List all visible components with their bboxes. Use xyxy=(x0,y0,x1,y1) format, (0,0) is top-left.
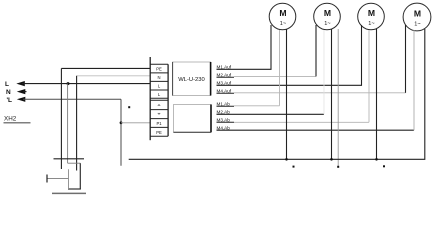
control unit U1 WL-U-230 xyxy=(173,62,211,96)
node junction PE riser xyxy=(120,121,123,124)
svg-text:M4.Auf: M4.Auf xyxy=(217,88,232,93)
wire riser V3 xyxy=(76,76,78,171)
wire N grey to terminal 2 xyxy=(77,75,151,77)
svg-text:L: L xyxy=(158,84,161,89)
wire riser V1 xyxy=(60,68,62,169)
arrow N xyxy=(17,89,26,94)
svg-text:P1: P1 xyxy=(156,121,162,126)
svg-text:M2.Ab: M2.Ab xyxy=(217,109,231,114)
switch S1 box bottom edge xyxy=(68,188,81,190)
motor M1 xyxy=(269,3,296,30)
wire M2 aux grey drop xyxy=(337,29,339,167)
svg-text:XH2: XH2 xyxy=(4,115,17,122)
switch S1 box right edge xyxy=(79,163,81,189)
node dot d xyxy=(128,106,130,108)
terminal divider t3 xyxy=(150,89,168,91)
node dot a xyxy=(293,166,295,168)
terminal divider t6 xyxy=(150,109,168,111)
wire M1.Ab label stub xyxy=(217,105,235,107)
wire M3 right drop xyxy=(376,29,378,161)
svg-text:M: M xyxy=(368,8,375,18)
svg-text:M3.Ab: M3.Ab xyxy=(217,117,231,122)
svg-text:1~: 1~ xyxy=(280,21,287,27)
wire M2.Auf grey run xyxy=(234,75,316,77)
arrow L xyxy=(16,81,25,86)
wall line A xyxy=(54,158,85,160)
wire M4.Auf label stub xyxy=(217,92,235,94)
svg-text:L: L xyxy=(158,92,161,97)
wire M3.Ab riser grey xyxy=(368,30,370,122)
svg-text:M: M xyxy=(279,8,286,18)
wire M3.Ab label stub xyxy=(217,121,235,123)
switch actuator lever grey xyxy=(47,178,69,180)
svg-text:1~: 1~ xyxy=(414,22,421,28)
svg-text:WL-U-230: WL-U-230 xyxy=(178,77,204,83)
wire M2.Ab riser faint xyxy=(323,30,325,114)
wire M2.Auf label stub xyxy=(217,76,235,78)
terminal strip X1 left rail xyxy=(149,57,151,140)
terminal divider t4 xyxy=(150,97,168,99)
switch S1 box left edge grey xyxy=(68,169,70,189)
wire M4.Ab xyxy=(217,129,414,131)
node junction M1 rail xyxy=(285,158,288,161)
wire M1.Ab riser grey xyxy=(279,30,281,106)
terminal divider t2 xyxy=(150,80,168,82)
arrow PE xyxy=(17,97,26,102)
svg-text:N: N xyxy=(157,75,160,80)
wire M4 right drop and common rail xyxy=(129,29,425,159)
svg-text:1~: 1~ xyxy=(368,21,375,27)
svg-text:M4.Ab: M4.Ab xyxy=(217,125,231,130)
wire M3.Ab grey run xyxy=(234,121,369,123)
wire M3.Auf xyxy=(217,25,362,85)
module U2 lower box xyxy=(174,105,212,133)
svg-text:M3.Auf: M3.Auf xyxy=(217,80,232,85)
wire M2.Auf riser xyxy=(315,25,317,76)
svg-text:PE: PE xyxy=(156,130,162,135)
terminal divider t0 xyxy=(150,63,168,65)
node junction M3 rail xyxy=(375,158,378,161)
wire M1.Ab grey run xyxy=(234,105,280,107)
node junction on L wire xyxy=(67,82,70,85)
wall baseline grey xyxy=(52,192,86,194)
wire M4.Auf grey run xyxy=(234,92,406,94)
switch actuator tick xyxy=(46,175,48,183)
wire M4.Ab riser grey xyxy=(413,30,415,130)
wire M2.Ab xyxy=(217,113,324,115)
wire PE horizontal to riser xyxy=(23,98,121,100)
node dot b xyxy=(337,166,339,168)
terminal divider t5 xyxy=(150,99,168,101)
pin down xyxy=(158,113,160,114)
wire grey branch to lower terminal 3 xyxy=(121,122,150,124)
pin up xyxy=(158,105,160,106)
svg-text:PE: PE xyxy=(156,67,162,72)
motor M3 xyxy=(358,3,385,30)
terminal divider t8 xyxy=(150,126,168,128)
wire M1 right drop xyxy=(286,29,288,161)
terminal divider t1 xyxy=(150,72,168,74)
svg-text:M: M xyxy=(324,8,331,18)
svg-text:M2.Auf: M2.Auf xyxy=(217,72,232,77)
svg-text:N: N xyxy=(6,89,11,96)
wire PE riser x121 xyxy=(120,99,122,165)
terminal divider t9 xyxy=(150,135,168,137)
node junction M2 rail xyxy=(330,158,333,161)
svg-text:M: M xyxy=(414,9,421,19)
wire M2 right drop xyxy=(331,29,333,161)
terminal strip X1 right rail xyxy=(167,64,169,136)
svg-text:'L: 'L xyxy=(7,97,13,104)
wire grey jog into switch xyxy=(68,162,81,164)
wire M1.Auf xyxy=(217,25,272,69)
wire M4.Auf riser xyxy=(405,25,407,93)
wire N stub xyxy=(23,91,27,93)
terminal divider t7 xyxy=(150,118,168,120)
motor M4 xyxy=(403,3,431,31)
svg-text:L: L xyxy=(5,81,9,88)
wire L phase xyxy=(22,83,150,85)
svg-text:M1.Ab: M1.Ab xyxy=(217,101,231,106)
wire riser V2 grey xyxy=(67,84,69,164)
wire PE top feed to terminal 1 xyxy=(61,67,150,69)
motor M2 xyxy=(314,3,341,30)
svg-text:1~: 1~ xyxy=(324,21,331,27)
svg-text:M1.Auf: M1.Auf xyxy=(217,64,232,69)
node dot c xyxy=(383,165,385,167)
